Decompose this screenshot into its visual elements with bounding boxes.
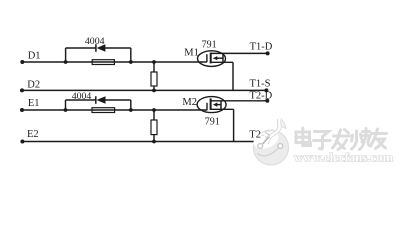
watermark chinese text 电子发烧友 xyxy=(296,128,387,150)
char 发 xyxy=(333,130,350,150)
watermark chinese text white inner highlight xyxy=(296,128,387,150)
resistor R2 vertical D1-D2 xyxy=(151,72,157,86)
watermark logo notch gray right edge xyxy=(268,121,281,144)
wire M1 drain to T1-D xyxy=(211,52,268,54)
svg-text:www.elecfans.com: www.elecfans.com xyxy=(294,151,394,165)
wire branch2 top xyxy=(66,99,96,101)
node junction E2-R4 xyxy=(152,140,156,144)
svg-text:791: 791 xyxy=(205,117,220,128)
watermark logo white pocket xyxy=(251,128,281,152)
svg-text:M2: M2 xyxy=(182,97,197,108)
svg-text:4004: 4004 xyxy=(85,36,105,47)
transistor M2 arrow stub xyxy=(216,104,221,106)
wire M2 drain to T2-D xyxy=(211,100,267,102)
wire branch2 right vertical xyxy=(130,100,132,110)
wire M2 source vertical xyxy=(233,109,235,141)
node junction D1-branch left xyxy=(64,60,68,64)
watermark logo ring A xyxy=(258,144,263,149)
transistor M2 ellipse body xyxy=(197,97,226,113)
wire branch1 right vertical xyxy=(130,48,132,62)
transistor M2 right bar xyxy=(220,101,222,110)
wire E2 / T2-S xyxy=(22,141,267,143)
wire branch2 top right xyxy=(105,99,130,101)
node junction D1-branch right xyxy=(129,60,133,64)
resistor R4 vertical E1-E2 xyxy=(151,120,157,135)
watermark logo top tip xyxy=(279,118,286,129)
transistor M1 gate bar xyxy=(206,54,208,62)
diode D2 4004 cathode bar xyxy=(95,96,97,104)
watermark logo white notch channel xyxy=(266,119,280,146)
transistor M1 channel bar xyxy=(210,53,212,64)
transistor M1 ellipse body xyxy=(198,51,226,67)
diode D1 4004 cathode bar xyxy=(95,44,97,52)
svg-text:E2: E2 xyxy=(27,129,39,140)
node E1 terminal xyxy=(20,108,24,112)
node D1 terminal xyxy=(20,60,24,64)
transistor M1 right bar xyxy=(222,53,224,62)
svg-text:D2: D2 xyxy=(27,80,40,91)
node T1-D terminal xyxy=(266,51,270,55)
wire D1 xyxy=(22,61,207,63)
char 子 xyxy=(314,132,331,149)
wire R4 vertical xyxy=(153,110,155,142)
resistor R1 horizontal on D1 xyxy=(92,60,114,65)
svg-text:4004: 4004 xyxy=(72,91,92,102)
wire branch1 left vertical xyxy=(65,48,67,62)
wire branch1 top right xyxy=(105,47,131,49)
watermark logo swoosh from ring B xyxy=(258,148,279,156)
char 电 xyxy=(296,128,311,146)
svg-text:T1-S: T1-S xyxy=(250,79,271,90)
watermark logo notch gray left edge xyxy=(264,120,278,144)
char 烧 xyxy=(352,129,372,150)
transistor M1 arrow head xyxy=(213,56,218,60)
char 友 xyxy=(371,129,387,149)
watermark logo slash from ring A xyxy=(262,137,269,144)
node E2 terminal xyxy=(20,140,24,144)
wire R2 vertical xyxy=(153,62,155,90)
node junction D2-R2 xyxy=(152,89,156,93)
node junction E1-R4 xyxy=(152,108,156,112)
wire M1 source stub xyxy=(211,61,233,63)
svg-text:M1: M1 xyxy=(184,48,199,59)
node T2-S terminal xyxy=(265,140,269,144)
diode D2 4004 triangle xyxy=(97,96,106,103)
svg-text:E1: E1 xyxy=(28,98,40,109)
watermark logo disc xyxy=(251,118,288,166)
node junction E1-branch right xyxy=(129,108,133,112)
wire branch2 left vertical xyxy=(65,100,67,110)
wire M1 source vertical xyxy=(232,62,234,90)
svg-text:T1-D: T1-D xyxy=(250,42,273,53)
svg-text:T2-S: T2-S xyxy=(249,130,270,141)
svg-text:D1: D1 xyxy=(28,51,41,62)
svg-text:791: 791 xyxy=(202,40,217,51)
wire E1 xyxy=(22,109,207,111)
wire D2 / T1-S xyxy=(22,89,266,91)
node junction E1-branch left xyxy=(64,108,68,112)
diode D1 4004 triangle xyxy=(97,44,106,51)
transistor M2 arrow head xyxy=(213,103,217,107)
transistor M1 arrow stub xyxy=(217,57,224,59)
watermark logo ring B xyxy=(278,144,283,149)
wire branch1 top xyxy=(66,47,96,49)
node junction D1-R2 xyxy=(152,60,156,64)
svg-text:T2-D: T2-D xyxy=(250,91,273,102)
wire M2 source stub xyxy=(211,108,234,110)
resistor R3 horizontal on E1 xyxy=(92,108,115,113)
transistor M2 channel bar xyxy=(210,98,212,110)
transistor M2 gate bar xyxy=(206,103,208,111)
node T2-D terminal xyxy=(265,99,269,103)
node T1-S terminal xyxy=(264,88,268,92)
node D2 terminal xyxy=(20,88,24,92)
